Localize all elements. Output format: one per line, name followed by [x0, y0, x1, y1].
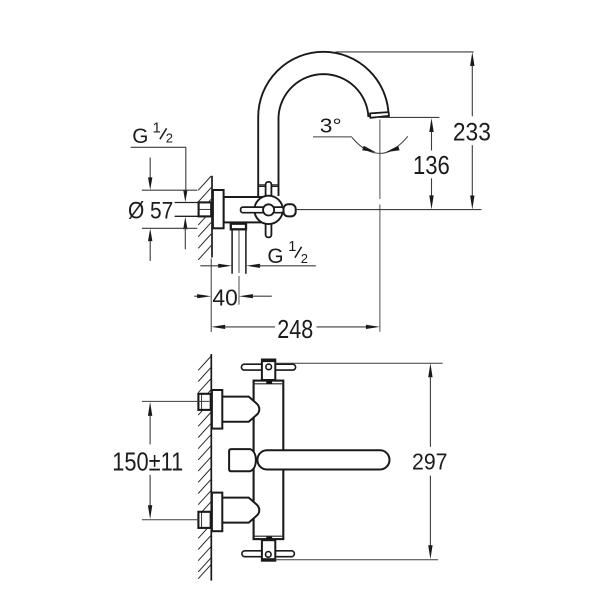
bottom cross handle bar (front view)	[242, 551, 295, 557]
wall flange escutcheon Ø57 (side view)	[213, 190, 224, 228]
dimension 233	[296, 52, 491, 210]
outlet collar (side view)	[231, 224, 246, 230]
3° angle annotation	[313, 115, 408, 154]
hex nipple G1/2 (side view)	[199, 202, 212, 216]
svg-text:297: 297	[412, 449, 448, 475]
top handle hub	[262, 360, 275, 381]
top hub screw mark	[266, 381, 272, 384]
dimension 40	[194, 284, 272, 310]
dimension 136	[376, 117, 450, 209]
wall hatching (side view)	[198, 176, 211, 260]
svg-text:150±11: 150±11	[112, 446, 183, 476]
svg-text:G: G	[132, 125, 148, 148]
spout flow centerline	[379, 120, 381, 332]
svg-text:3°: 3°	[320, 115, 342, 138]
label G1/2 (upper left)	[131, 121, 188, 250]
svg-text:G: G	[267, 245, 283, 268]
G1/2 supply pipe stub (side view)	[175, 203, 199, 217]
svg-text:2: 2	[301, 251, 308, 266]
svg-text:136: 136	[413, 152, 450, 180]
wall line (side view)	[211, 176, 213, 258]
svg-text:40: 40	[212, 284, 237, 310]
dimension 248	[211, 316, 380, 344]
wall line (front view)	[210, 354, 212, 581]
upper wall flange (front view)	[212, 390, 222, 429]
upper eccentric union	[222, 397, 259, 422]
top cross handle bar (front view)	[241, 364, 295, 370]
cross handle hub (side view)	[254, 196, 282, 224]
body top shoulder line	[255, 383, 283, 385]
upper hex nut G3/4	[198, 394, 210, 410]
faucet body cylinder (front view)	[254, 381, 284, 539]
diverter knob (front view)	[229, 449, 256, 471]
handle stem circle (side view)	[263, 204, 274, 215]
wall extension line down	[210, 259, 212, 333]
lower wall flange (front view)	[212, 493, 222, 532]
dimension Ø57	[128, 158, 197, 262]
svg-text:248: 248	[277, 316, 313, 344]
svg-text:2: 2	[166, 131, 173, 146]
svg-text:1: 1	[153, 121, 161, 137]
spout capsule (front view)	[257, 450, 389, 469]
bottom handle hub	[262, 540, 275, 561]
lower outlet tube G1/2 (side view)	[232, 229, 246, 273]
body bottom shoulder line	[255, 535, 283, 537]
label G1/2 (at lower outlet)	[200, 239, 315, 268]
bottom handle screw circle	[266, 552, 272, 558]
handle tee cap lines (side view)	[258, 185, 278, 187]
spout nozzle mouth (3° tilt)	[370, 112, 389, 118]
cross handle horizontal spoke (side view)	[241, 207, 284, 213]
svg-text:233: 233	[453, 119, 491, 147]
dimension 150±11	[112, 401, 209, 519]
valve body (side view)	[224, 197, 268, 222]
svg-text:Ø 57: Ø 57	[128, 198, 173, 225]
wall hatching (front view)	[198, 356, 211, 579]
dimension 297	[275, 363, 448, 560]
lower hex nut G3/4	[198, 512, 210, 528]
bottom hub screw mark	[266, 537, 272, 540]
top handle screw circle	[266, 364, 272, 370]
outlet tube centerline	[238, 229, 240, 304]
gooseneck spout tube (side view)	[258, 52, 388, 197]
cross handle vertical spoke (side view)	[266, 182, 272, 238]
lower eccentric union	[222, 498, 259, 523]
handle end knob (side view)	[284, 204, 296, 216]
svg-text:1: 1	[288, 239, 296, 255]
